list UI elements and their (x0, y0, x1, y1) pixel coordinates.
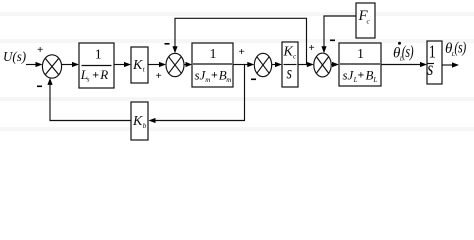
svg-text:L: L (372, 76, 377, 84)
wire B5 to block B6 with speed label (381, 62, 427, 67)
feedback gain block Kb (131, 102, 148, 140)
wire B2 to summer S2 (148, 62, 166, 67)
svg-text:(s): (s) (402, 43, 414, 61)
input label U(s) (3, 49, 27, 66)
block B1 1/(Ls+R) (79, 43, 114, 88)
disturbance block Fc (356, 3, 375, 38)
svg-text:+: + (309, 42, 315, 54)
wire S4 to block B5 (331, 62, 339, 67)
block B5 1/(sJL+BL) (339, 43, 381, 86)
summing junction S3 (254, 53, 271, 76)
svg-text:+: + (37, 44, 43, 56)
svg-text:b: b (143, 122, 147, 130)
svg-text:s: s (287, 64, 292, 83)
summing junction S2 (166, 53, 184, 76)
minus sign at S2 top input (165, 43, 170, 45)
svg-text:+: + (358, 68, 365, 82)
plus sign at S1 input (37, 44, 43, 56)
wire S3 to block B4 (272, 62, 282, 67)
output label theta L (s) (445, 39, 466, 58)
svg-text:U(s): U(s) (3, 49, 27, 66)
svg-text:R: R (99, 67, 108, 82)
wire S2 to block B3 (184, 62, 192, 67)
outer feedback tap wire down to Kb (149, 65, 245, 124)
svg-text:K: K (283, 45, 294, 60)
output wire from B6 (442, 62, 459, 67)
wire Fc to top of S4 (321, 16, 356, 53)
svg-text:m: m (226, 76, 231, 84)
wire U(s) to summer S1 (26, 62, 43, 67)
minus sign at S1 bottom input (37, 85, 42, 87)
integrator block B6 1/s (427, 41, 442, 84)
svg-text:1: 1 (95, 48, 102, 63)
svg-text:K: K (132, 114, 143, 129)
svg-text:1: 1 (357, 47, 364, 62)
wire B3 to summer S3 with plus sign (233, 46, 254, 67)
summing junction S4 (314, 53, 331, 77)
block B3 1/(sJm+Bm) (192, 43, 233, 87)
gain block B2 Kt (131, 47, 148, 83)
wire B1 to block B2 (114, 62, 131, 67)
plus sign at S2 left input (156, 70, 162, 82)
svg-text:m: m (205, 76, 210, 84)
speed label theta-dot L (s) (393, 42, 414, 63)
minus sign below S3 (251, 78, 256, 80)
svg-text:+: + (92, 67, 99, 81)
feedback wire Kb to bottom of S1 (47, 78, 131, 121)
wire B4 to summer S4 with plus sign (298, 42, 315, 67)
svg-text:+: + (211, 68, 218, 82)
svg-text:s: s (87, 75, 90, 83)
summing junction S1 (42, 55, 61, 78)
scan band artifacts (0, 12, 474, 131)
wire S1 to block B1 (62, 62, 80, 67)
svg-text:K: K (132, 58, 143, 73)
svg-text:1: 1 (210, 47, 217, 62)
svg-text:+: + (156, 70, 162, 82)
minus sign at S4 top input (330, 39, 335, 41)
svg-text:+: + (239, 46, 245, 58)
svg-text:(s): (s) (454, 39, 466, 57)
svg-text:s: s (427, 57, 433, 79)
block B4 Kc/s (282, 42, 298, 87)
inner feedback wire from node after B4 to top of S2 (172, 18, 306, 64)
svg-text:B: B (366, 67, 374, 82)
